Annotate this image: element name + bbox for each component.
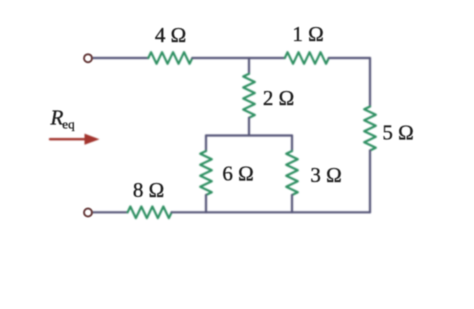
wire 6-ohm top lead bbox=[205, 136, 207, 152]
svg-text:4 Ω: 4 Ω bbox=[155, 23, 186, 47]
svg-text:6 Ω: 6 Ω bbox=[222, 162, 253, 186]
wire right side bottom lead bbox=[369, 151, 371, 213]
svg-text:8 Ω: 8 Ω bbox=[133, 178, 164, 202]
resistor R 6ohm bbox=[200, 151, 212, 195]
svg-text:2 Ω: 2 Ω bbox=[263, 86, 294, 110]
svg-text:5 Ω: 5 Ω bbox=[382, 121, 413, 145]
arrow Req direction bbox=[50, 134, 100, 145]
wire top-left: terminal to 4-ohm bbox=[93, 57, 149, 59]
wire 3-ohm top lead bbox=[291, 136, 293, 152]
terminal top-left bbox=[84, 54, 92, 62]
wire 6-ohm bottom lead bbox=[205, 195, 207, 212]
resistor R 3ohm bbox=[286, 151, 298, 195]
wire bottom: 8-ohm to bottom-right corner bbox=[172, 211, 370, 213]
wire 3-ohm bottom lead bbox=[291, 195, 293, 212]
svg-text:eq: eq bbox=[62, 117, 75, 132]
wire bottom-left: terminal to 8-ohm bbox=[93, 211, 128, 213]
wire box top rail bbox=[206, 134, 292, 136]
resistor R 2ohm bbox=[243, 74, 255, 118]
wire 4-ohm to node A bbox=[192, 57, 249, 59]
resistor R 8ohm bbox=[128, 207, 172, 219]
resistor R 5ohm bbox=[364, 107, 376, 151]
svg-text:3 Ω: 3 Ω bbox=[310, 163, 341, 187]
wire node A down to 2-ohm bbox=[248, 58, 250, 74]
resistor R 4ohm bbox=[148, 52, 192, 64]
wire right side top lead bbox=[369, 58, 371, 107]
terminal bottom-left bbox=[84, 209, 92, 217]
wire node A to 1-ohm bbox=[249, 57, 285, 59]
wire 1-ohm to top-right corner bbox=[329, 57, 370, 59]
resistor R 1ohm bbox=[285, 52, 329, 64]
svg-text:1 Ω: 1 Ω bbox=[292, 22, 323, 46]
wire 2-ohm to box top bbox=[248, 118, 250, 136]
